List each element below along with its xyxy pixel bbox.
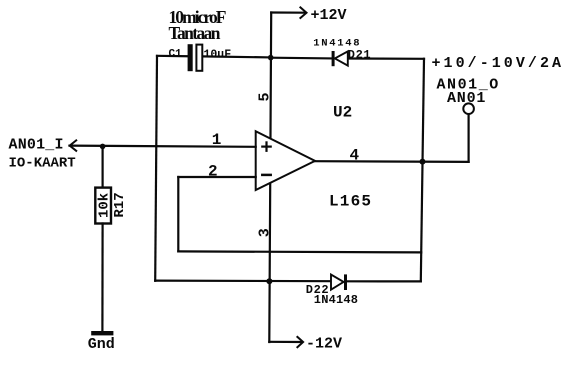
svg-text:R17: R17 <box>112 192 128 217</box>
svg-text:Tantaan: Tantaan <box>169 23 221 43</box>
junction at output and right edge <box>420 159 426 165</box>
svg-text:+10/-10V/2A: +10/-10V/2A <box>432 55 565 72</box>
svg-text:2: 2 <box>208 163 218 181</box>
terminal circle AN01 <box>463 103 474 114</box>
wire -12V branch with arrow <box>269 341 301 343</box>
svg-text:3: 3 <box>257 228 274 237</box>
wire R17 bottom to ground <box>101 224 103 332</box>
wire R17 top <box>101 146 103 188</box>
junction at input and R17 <box>100 144 106 150</box>
svg-text:C1: C1 <box>169 49 183 61</box>
svg-text:1: 1 <box>212 131 222 149</box>
wire inverting input pin 2 <box>178 176 255 178</box>
wire output pin 4 <box>315 160 469 163</box>
resistor R17 <box>95 188 111 224</box>
wire feedback bottom <box>178 251 421 252</box>
wire +12V branch with arrow <box>271 11 304 13</box>
wire right edge (x=422.5 from top line down to bottom line) <box>421 59 424 282</box>
svg-text:5: 5 <box>257 92 274 101</box>
wire V+ rail (vertical x=269 from +12V corner to -12V corner) <box>269 13 271 343</box>
junction at V+ rail and top line <box>268 55 274 61</box>
capacitor C1 <box>188 44 193 71</box>
wire top line right segment through diode D21 <box>271 57 332 60</box>
svg-text:D21: D21 <box>348 48 371 62</box>
svg-text:AN01: AN01 <box>447 90 486 107</box>
svg-text:10uF: 10uF <box>204 49 232 62</box>
op-amp minus input symbol <box>262 174 270 177</box>
op-amp U2 triangle <box>256 131 315 190</box>
svg-text:+12V: +12V <box>311 7 347 24</box>
svg-text:L165: L165 <box>329 192 372 210</box>
diode D21 (pointing left, cathode bar at left) <box>332 51 335 66</box>
svg-text:U2: U2 <box>333 103 352 121</box>
diode D22 (pointing right, cathode bar at right) <box>331 275 344 290</box>
wire bottom line through diode D22 <box>155 280 331 283</box>
svg-text:Gnd: Gnd <box>88 336 115 353</box>
wire input AN01_I with left arrow <box>70 146 256 147</box>
svg-text:1N4148: 1N4148 <box>314 293 358 307</box>
ground symbol bar <box>91 331 113 335</box>
svg-text:-12V: -12V <box>306 336 342 353</box>
svg-text:AN01_I: AN01_I <box>9 137 64 154</box>
wire left branch (x=157 from capacitor line down to bottom line) <box>155 56 157 281</box>
wire terminal drop <box>468 114 470 162</box>
wire top line left segment through capacitor C1 <box>157 55 188 58</box>
svg-text:4: 4 <box>350 147 360 165</box>
junction at V- rail and bottom diode line <box>266 278 272 284</box>
svg-text:IO-KAART: IO-KAART <box>9 156 76 172</box>
op-amp plus input symbol <box>262 146 270 148</box>
wire feedback vertical <box>177 177 179 251</box>
svg-text:10k: 10k <box>97 193 113 218</box>
